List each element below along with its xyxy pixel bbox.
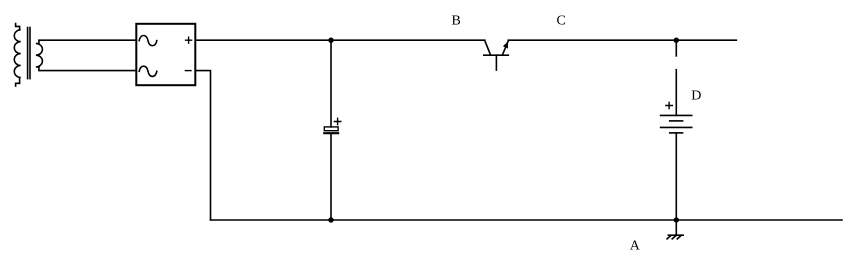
wire bottom rail [211, 219, 843, 221]
svg-text:D: D [691, 88, 701, 103]
wire bridge minus output [195, 71, 210, 220]
battery D plate short lower [670, 132, 683, 134]
junction node: battery / top rail [674, 38, 679, 43]
wire capacitor bottom lead [330, 134, 332, 220]
battery D plate long top [661, 114, 692, 116]
transistor Q1 base bar [484, 54, 509, 56]
bridge plus sign [186, 37, 192, 43]
transistor Q1 left lead diagonal [485, 41, 491, 55]
junction node A: ground / bottom rail [674, 217, 679, 222]
svg-text:B: B [452, 13, 461, 28]
transistor Q1 base lead [495, 55, 497, 70]
transistor Q1 emitter diagonal [502, 41, 508, 55]
ground hatch 2 [672, 236, 676, 239]
transistor Q1 emitter arrowhead [503, 41, 508, 48]
ground bar [668, 234, 683, 236]
capacitor positive plate [324, 127, 338, 131]
wire battery top lead [675, 70, 677, 116]
battery plus sign [666, 102, 672, 108]
junction node: capacitor / bottom rail [328, 217, 333, 222]
ground stem [675, 220, 677, 235]
bridge minus sign [185, 70, 191, 72]
wire top rail left segment (bridge + to transistor) [195, 39, 485, 41]
svg-text:C: C [557, 14, 566, 29]
battery D plate short upper [670, 120, 683, 122]
wire stub below battery top node [675, 40, 677, 56]
capacitor plus sign [334, 118, 340, 124]
bridge AC tilde bottom [139, 66, 157, 76]
wire secondary bottom lead to bridge [39, 67, 136, 71]
transformer T1 secondary winding [36, 44, 43, 67]
wire secondary top lead to bridge [39, 40, 136, 43]
bridge rectifier body [136, 24, 195, 85]
ground hatch 3 [677, 236, 681, 239]
transformer T1 core line 2 [29, 28, 31, 79]
transformer T1 primary winding [14, 24, 20, 87]
wire capacitor top lead [330, 40, 332, 127]
capacitor negative plate [324, 132, 338, 134]
ground hatch 1 [667, 236, 671, 239]
svg-text:A: A [630, 239, 641, 254]
bridge AC tilde top [139, 36, 157, 46]
junction node: capacitor / top rail [328, 38, 333, 43]
wire battery bottom lead [675, 133, 677, 220]
transformer T1 core line 1 [27, 28, 29, 79]
wire top rail right segment [508, 39, 736, 41]
battery D plate long bottom [661, 126, 692, 128]
